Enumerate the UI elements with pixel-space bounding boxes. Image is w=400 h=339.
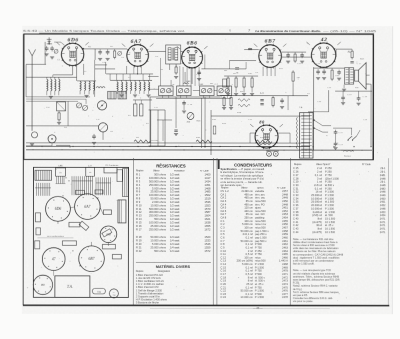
verticals	[149, 97, 151, 143]
tone control box	[149, 109, 165, 111]
output transformer	[345, 68, 354, 85]
wires around V2	[94, 49, 96, 60]
jack circles	[97, 101, 106, 110]
V1 cathode drop	[72, 66, 74, 75]
speaker	[355, 70, 359, 81]
socket 80	[33, 275, 52, 294]
resistor bank under V4	[224, 75, 258, 77]
scan noise overlay	[22, 26, 392, 314]
diagonal	[52, 75, 54, 77]
pot 400	[187, 113, 194, 120]
input caps	[46, 46, 48, 48]
bus rails	[26, 145, 310, 147]
socket 6B6	[100, 226, 117, 243]
socket 6A7	[75, 194, 101, 220]
T.A. block	[55, 276, 90, 298]
wire T1 to V3	[169, 64, 171, 70]
heater zig	[259, 143, 271, 145]
wires/caps	[67, 101, 69, 126]
80 anode wires	[250, 132, 255, 134]
horiz resistors y141	[134, 140, 150, 143]
pilot lamps	[267, 151, 272, 156]
chassis top row parts	[55, 168, 65, 176]
V1 plate wire	[84, 48, 127, 50]
coil group G1	[47, 79, 48, 91]
wire v x83.5	[83, 64, 85, 75]
socket 6D6	[46, 196, 71, 221]
719 box	[92, 288, 105, 294]
misc wires cell D	[335, 49, 337, 57]
left bus y77	[26, 76, 76, 78]
coil group G2	[77, 80, 96, 82]
pot box	[57, 102, 66, 111]
antenna	[29, 49, 36, 131]
horiz coil	[96, 87, 105, 88]
top resistor row	[220, 95, 308, 97]
IF transformer T1	[148, 50, 165, 52]
socket 6B7	[79, 246, 105, 272]
coil row G3-G4	[116, 80, 118, 82]
C.TH lamp	[109, 289, 118, 298]
mains plug	[351, 128, 353, 135]
wire v x76.5	[76, 49, 78, 81]
wire to V1 grid	[54, 41, 60, 43]
inner corner wires	[328, 90, 330, 112]
mains caps	[333, 127, 352, 129]
comps below 42	[314, 67, 344, 69]
switch primary	[314, 120, 323, 132]
left vert comps	[134, 104, 137, 116]
socket 42	[42, 248, 65, 271]
padder block row	[159, 86, 174, 96]
hatched blocks	[108, 91, 117, 99]
hatch combs	[71, 176, 73, 195]
mid wire y116	[211, 115, 310, 117]
C13	[183, 100, 185, 102]
misc chassis parts	[35, 213, 40, 222]
wire V4->42	[282, 56, 312, 58]
bus y80 right	[110, 79, 152, 81]
wire into V4	[244, 49, 259, 51]
comps right of V4	[282, 51, 306, 53]
trimmer pair	[77, 103, 82, 108]
avc wires	[26, 96, 90, 98]
scan speckle	[111, 180, 114, 183]
power transformer T.A.	[300, 113, 314, 159]
V4 pin drops	[262, 67, 264, 76]
schematic frame	[24, 34, 374, 160]
bottom rule	[23, 304, 389, 306]
column rules	[22, 34, 24, 305]
caps under plate wire	[99, 49, 101, 51]
chassis layout frame	[33, 167, 128, 297]
filter caps top	[335, 90, 372, 92]
comp right of V3	[204, 55, 206, 69]
